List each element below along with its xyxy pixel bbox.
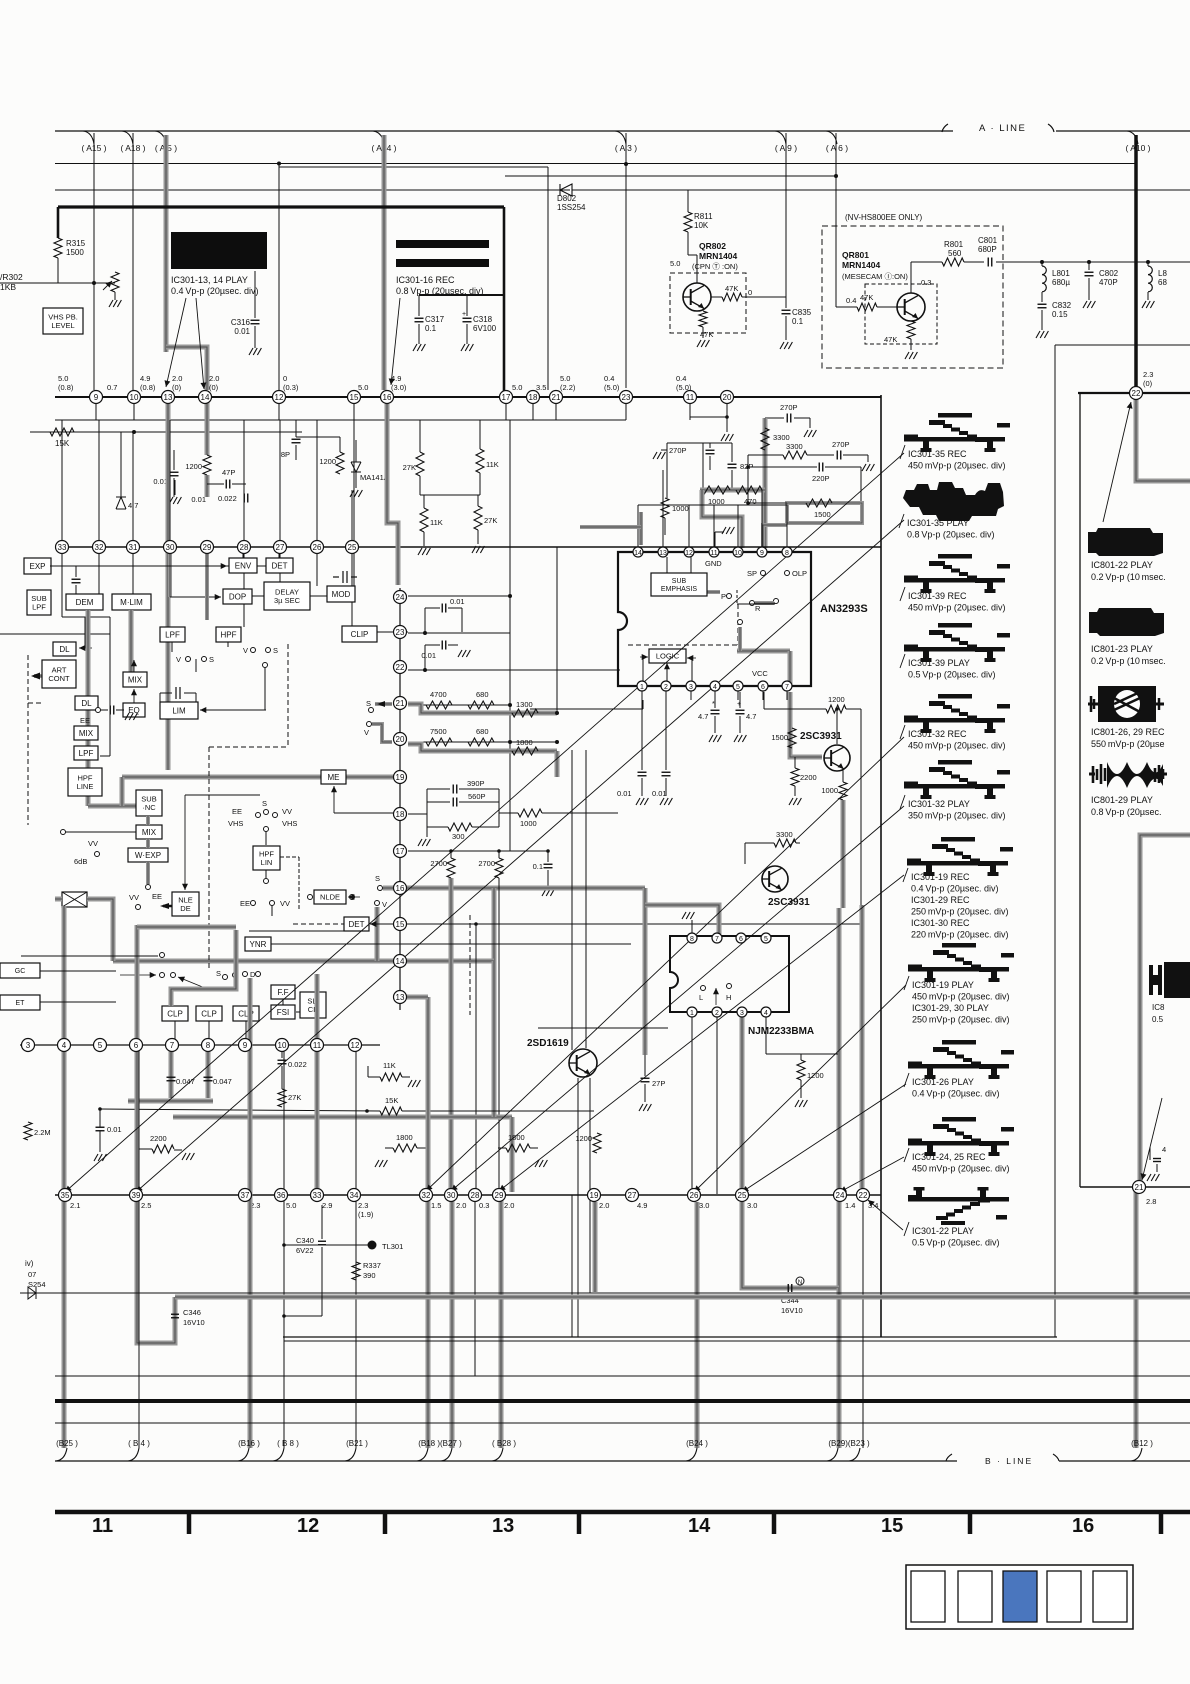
svg-text:CLIP: CLIP xyxy=(351,630,369,639)
svg-text:EE: EE xyxy=(232,807,242,816)
node 11 row1 xyxy=(684,391,697,404)
svg-text:1: 1 xyxy=(690,1010,694,1017)
svg-text:0.047: 0.047 xyxy=(213,1077,232,1086)
svg-text:14: 14 xyxy=(396,957,405,966)
gray trace A10 lower through node 21 xyxy=(1140,835,1190,1187)
A-LINE label xyxy=(942,124,948,132)
wire y345 right xyxy=(1055,344,1190,346)
svg-text:DEM: DEM xyxy=(76,598,94,607)
svg-text:39: 39 xyxy=(132,1191,141,1200)
box DL a xyxy=(53,642,76,656)
svg-text:TL301: TL301 xyxy=(382,1242,403,1251)
svg-text:390: 390 xyxy=(363,1271,376,1280)
box SUB LPF xyxy=(27,590,51,615)
connector hook (B29) xyxy=(827,1448,838,1461)
wire vertical x507 node17 net xyxy=(509,420,511,851)
wire LPF drop xyxy=(171,642,173,652)
capacitor C317 0.1 xyxy=(415,317,424,319)
waveform IC301-19 REC xyxy=(907,837,1013,876)
resistor 1200 b xyxy=(336,452,344,474)
gray trace x838 to B29 xyxy=(837,1288,842,1448)
svg-text:0.3: 0.3 xyxy=(479,1201,489,1210)
resistor 3300 a xyxy=(761,428,769,450)
gray trace 1800 band xyxy=(408,744,557,751)
svg-text:1.5: 1.5 xyxy=(431,1201,441,1210)
svg-text:MIX: MIX xyxy=(142,828,157,837)
leader tick xyxy=(904,1148,909,1162)
svg-text:EMPHASIS: EMPHASIS xyxy=(661,586,698,593)
svg-text:IC301-19 REC: IC301-19 REC xyxy=(911,872,970,882)
svg-text:450 mVp-p (20µsec. div): 450 mVp-p (20µsec. div) xyxy=(912,992,1010,1002)
svg-text:27K: 27K xyxy=(403,463,416,472)
svg-text:1.4: 1.4 xyxy=(845,1201,855,1210)
svg-text:1500: 1500 xyxy=(771,733,788,742)
gray trace A5 left branch below row1 xyxy=(166,404,171,770)
gray trace pin3 down xyxy=(740,1017,745,1192)
ground below C802 xyxy=(1083,301,1087,308)
leader line waveform xyxy=(426,737,904,1191)
svg-text:0.4 Vp-p (20µsec. div): 0.4 Vp-p (20µsec. div) xyxy=(171,286,259,296)
wire stub node 23 to rail xyxy=(625,397,627,420)
switch R xyxy=(750,601,755,606)
svg-text:EQ: EQ xyxy=(128,706,140,715)
svg-text:680: 680 xyxy=(476,727,489,736)
waveform IC301-35 REC xyxy=(904,413,1010,452)
svg-text:47K: 47K xyxy=(700,330,713,339)
wire 1500 left link xyxy=(748,502,787,504)
node IC301 pin 15 bus xyxy=(394,918,407,931)
node 27 row bottom xyxy=(626,1189,639,1202)
svg-text:( B28 ): ( B28 ) xyxy=(492,1439,516,1448)
svg-text:3.5: 3.5 xyxy=(536,383,546,392)
ground below MA141A xyxy=(355,472,357,488)
ground 4.7 a xyxy=(709,735,713,742)
box F.F xyxy=(271,985,295,999)
wire row3 bus xyxy=(20,1044,380,1046)
wire stub pin 14 xyxy=(637,532,639,547)
ruler tick xyxy=(772,1512,777,1534)
page navigation box active (blue) xyxy=(1003,1571,1037,1622)
svg-text:GND: GND xyxy=(705,559,722,568)
svg-text:(0.3): (0.3) xyxy=(283,383,299,392)
capacitor 82P loop xyxy=(703,442,732,444)
wire TL301 row xyxy=(284,1244,368,1246)
ground QR801 emitter xyxy=(910,339,912,350)
svg-text:8P: 8P xyxy=(281,450,290,459)
svg-text:2.3: 2.3 xyxy=(1143,370,1153,379)
gray trace 1300 band xyxy=(408,704,557,713)
resistor 27K grid a xyxy=(419,420,421,452)
switch V node 20 xyxy=(367,722,372,727)
svg-text:(5.0): (5.0) xyxy=(604,383,620,392)
svg-text:L8: L8 xyxy=(1158,269,1167,278)
gray trace y1117 long xyxy=(173,1115,512,1120)
svg-text:2700: 2700 xyxy=(478,859,495,868)
leader line IC301-22 xyxy=(868,1200,903,1230)
resistor 47K QR801 base xyxy=(857,303,877,311)
capacitor above MOD xyxy=(333,576,339,578)
svg-text:33: 33 xyxy=(313,1191,322,1200)
svg-text:1KB: 1KB xyxy=(0,282,16,292)
diode MA141A xyxy=(355,440,357,462)
svg-text:C832: C832 xyxy=(1052,301,1072,310)
capacitor 0.01 loop b xyxy=(424,645,426,670)
svg-text:C316: C316 xyxy=(231,318,251,327)
box EQ xyxy=(123,703,145,717)
wire horizontal rail y176 xyxy=(505,175,836,177)
gray trace node13 branch xyxy=(406,995,428,1000)
svg-text:OLP: OLP xyxy=(792,569,807,578)
node IC301 pin 18 bus xyxy=(394,808,407,821)
svg-text:NJM2233BMA: NJM2233BMA xyxy=(748,1026,814,1037)
wire connector A3 vertical xyxy=(625,133,627,388)
waveform photo IC301-13 14 PLAY xyxy=(171,232,267,269)
svg-text:29: 29 xyxy=(203,543,212,552)
wire node 32 to DEM xyxy=(98,554,100,594)
svg-text:0.01: 0.01 xyxy=(421,651,436,660)
wire stub node 12 to rail xyxy=(278,397,280,420)
wire node 27 to DELAY xyxy=(279,554,281,582)
svg-text:EE: EE xyxy=(240,899,250,908)
ground 270P a xyxy=(804,430,808,437)
wire vertical x133 mesh xyxy=(132,432,134,594)
leader tick xyxy=(900,445,905,459)
wire A-LINE top rail left segment xyxy=(55,130,953,132)
svg-text:07: 07 xyxy=(28,1270,36,1279)
wire horizontal rail y190 left of D802 xyxy=(55,189,558,191)
capacitor 220P xyxy=(748,466,817,468)
resistor 1200 d xyxy=(800,1054,802,1060)
ground below C835 xyxy=(780,342,784,349)
box LPF left stack xyxy=(74,746,98,760)
wire node 26 down xyxy=(316,554,318,586)
svg-text:DET: DET xyxy=(349,920,365,929)
junction dot xyxy=(132,430,136,434)
svg-text:LPF: LPF xyxy=(165,630,180,639)
wire vertical x99 mesh xyxy=(98,420,100,594)
wire vertical from rail to node 12 xyxy=(278,164,280,390)
box MIX left stack xyxy=(74,726,98,740)
svg-text:F.F: F.F xyxy=(277,988,288,997)
wire node33 net xyxy=(61,556,63,617)
wire stub node 14 to rail xyxy=(204,397,206,420)
wire main bus row 1 xyxy=(55,396,881,398)
leader line node 21 bottom right xyxy=(1142,1098,1162,1180)
svg-text:9: 9 xyxy=(760,550,764,557)
svg-text:32: 32 xyxy=(422,1191,431,1200)
gray trace node19 to rail xyxy=(593,1202,598,1292)
wire node15 row right xyxy=(408,923,860,925)
svg-text:0.5: 0.5 xyxy=(1152,1015,1164,1024)
gray elbow pin14 feed xyxy=(580,525,641,529)
wire horizontal rail y190 right of D802 xyxy=(572,189,1190,191)
svg-text:5.0: 5.0 xyxy=(670,259,680,268)
wire DOP DELAY link xyxy=(252,595,264,597)
pin 7 NJM2233BMA xyxy=(712,933,722,943)
svg-text:27P: 27P xyxy=(652,1079,665,1088)
svg-text:3µ SEC: 3µ SEC xyxy=(274,596,301,605)
svg-text:+: + xyxy=(462,311,466,318)
svg-text:IC301-30 REC: IC301-30 REC xyxy=(911,918,970,928)
svg-text:IC801-22 PLAY: IC801-22 PLAY xyxy=(1091,560,1153,570)
wire vertical x548 xyxy=(547,167,549,390)
svg-text:37: 37 xyxy=(241,1191,250,1200)
wire thick frame top of video head box xyxy=(58,205,504,208)
svg-text:2.1: 2.1 xyxy=(70,1201,80,1210)
svg-text:V: V xyxy=(364,728,369,737)
wire node22 row xyxy=(408,669,620,671)
svg-text:0.3: 0.3 xyxy=(921,278,931,287)
svg-text:0.7: 0.7 xyxy=(107,383,117,392)
resistor 3300 c xyxy=(745,842,774,844)
svg-text:270P: 270P xyxy=(780,403,798,412)
wire output rail y260 to right edge xyxy=(1003,261,1190,263)
capacitor 390P xyxy=(408,813,427,815)
svg-text:(1.9): (1.9) xyxy=(358,1210,374,1219)
ruler tick xyxy=(968,1512,973,1534)
svg-text:2.8: 2.8 xyxy=(1146,1197,1156,1206)
svg-text:1200: 1200 xyxy=(319,457,336,466)
resistor 1000 v xyxy=(661,498,669,518)
svg-text:12: 12 xyxy=(297,1515,319,1537)
wire stub node 17 to rail xyxy=(505,397,507,420)
svg-text:8: 8 xyxy=(206,1041,211,1050)
wire stub pin 13 xyxy=(662,532,664,547)
svg-text:0.8 Vp-p (20µsec. div): 0.8 Vp-p (20µsec. div) xyxy=(907,530,995,540)
svg-text:·NC: ·NC xyxy=(142,803,156,812)
node 4 row3 xyxy=(58,1039,71,1052)
resistor 680 a xyxy=(468,701,494,709)
svg-text:300: 300 xyxy=(452,832,465,841)
gray trace MLIM down xyxy=(129,610,134,672)
wire C317 C318 top bus xyxy=(419,294,505,296)
wire node 29 down gray xyxy=(205,554,209,620)
inductor L803 680 xyxy=(1147,262,1149,266)
svg-text:25: 25 xyxy=(348,543,357,552)
wire vertical x881 frame xyxy=(880,395,882,1337)
wire vertical x280 mesh xyxy=(279,420,281,540)
svg-text:CLP: CLP xyxy=(167,1009,183,1018)
svg-text:IC301-26 PLAY: IC301-26 PLAY xyxy=(912,1077,974,1087)
box NLE DE xyxy=(172,892,199,916)
connector hook ( B28 ) xyxy=(492,1448,503,1461)
wire pin4 to 1200 xyxy=(765,1017,767,1054)
svg-text:2SC3931: 2SC3931 xyxy=(800,731,842,742)
box CLP 1 xyxy=(162,1006,188,1021)
wire stub node 9 to rail xyxy=(95,397,97,420)
svg-text:DL: DL xyxy=(81,699,92,708)
leader arrow to node 16 xyxy=(391,298,400,385)
svg-text:34: 34 xyxy=(350,1191,359,1200)
svg-text:3.0: 3.0 xyxy=(699,1201,709,1210)
svg-text:15: 15 xyxy=(396,920,405,929)
svg-text:S: S xyxy=(209,655,214,664)
box ENV xyxy=(229,558,257,573)
connector hook (B23 ) xyxy=(849,1448,860,1461)
svg-text:680: 680 xyxy=(476,690,489,699)
svg-text:0.01: 0.01 xyxy=(617,789,632,798)
wire node11 node20 link xyxy=(689,404,691,417)
node 29 row bottom xyxy=(493,1189,506,1202)
resistor 1800 c xyxy=(393,1144,417,1152)
ground pin8 xyxy=(691,920,693,933)
svg-text:11K: 11K xyxy=(430,518,443,527)
node IC301 pin 24 bus xyxy=(394,591,407,604)
ruler tick xyxy=(383,1512,388,1534)
gray trace node30 to B27 xyxy=(450,1195,455,1448)
svg-text:680P: 680P xyxy=(978,245,997,254)
ground below C318 xyxy=(461,344,465,351)
svg-text:L801: L801 xyxy=(1052,269,1070,278)
svg-text:LPF: LPF xyxy=(32,602,46,611)
svg-text:450 mVp-p (20µsec. div): 450 mVp-p (20µsec. div) xyxy=(912,1164,1010,1174)
svg-text:8: 8 xyxy=(690,936,694,943)
svg-text:R801: R801 xyxy=(944,240,964,249)
svg-text:IC801-23 PLAY: IC801-23 PLAY xyxy=(1091,644,1153,654)
node 18 row1 xyxy=(527,391,540,404)
arrow wires left of cluster xyxy=(160,973,165,978)
capacitor C801 680P xyxy=(964,261,984,263)
node 17 row1 xyxy=(500,391,513,404)
node 3 row3 xyxy=(22,1039,35,1052)
box NLDE xyxy=(314,890,346,904)
svg-text:16: 16 xyxy=(1072,1515,1094,1537)
svg-text:P: P xyxy=(721,592,726,601)
connector hook ( A18 ) xyxy=(122,131,133,144)
gray trace subnc stack xyxy=(146,816,150,825)
svg-text:47K: 47K xyxy=(860,293,873,302)
ground below C832 xyxy=(1036,331,1040,338)
junction dots on rail xyxy=(1040,260,1044,264)
svg-text:R315: R315 xyxy=(66,239,86,248)
svg-text:VV: VV xyxy=(282,807,292,816)
ground 4.7 b xyxy=(734,735,738,742)
node 30 row bottom xyxy=(445,1189,458,1202)
capacitor 0.01 loop a xyxy=(424,608,426,633)
svg-text:S: S xyxy=(262,799,267,808)
pin 6 NJM2233BMA xyxy=(736,933,746,943)
capacitor 270P b loop xyxy=(667,442,710,444)
svg-text:5.0: 5.0 xyxy=(560,374,570,383)
wire node22b down to B23 xyxy=(862,1202,864,1448)
svg-text:11K: 11K xyxy=(383,1061,396,1070)
svg-text:V: V xyxy=(243,646,248,655)
wire node 28 to HPF xyxy=(243,554,245,627)
gray trace DO to B16 xyxy=(248,978,253,1448)
svg-text:EE: EE xyxy=(80,716,90,725)
svg-text:LOGIC: LOGIC xyxy=(656,652,680,661)
resistor R315 1500 xyxy=(54,238,62,258)
wire CLP stubs xyxy=(174,1021,176,1039)
gray trace ME horizontal xyxy=(122,775,394,780)
waveform fragment right edge xyxy=(1149,965,1162,995)
svg-text:27K: 27K xyxy=(288,1093,301,1102)
svg-text:MOD: MOD xyxy=(332,590,351,599)
svg-text:1: 1 xyxy=(640,684,644,691)
svg-text:DE: DE xyxy=(180,904,190,913)
svg-text:2.5: 2.5 xyxy=(141,1201,151,1210)
svg-text:IC301-39 PLAY: IC301-39 PLAY xyxy=(908,658,970,668)
resistor 3300 b xyxy=(783,451,807,459)
wire 3300b 270Pc row xyxy=(748,454,783,456)
node 10 row1 xyxy=(128,391,141,404)
box CLIP xyxy=(342,626,377,642)
capacitor 4.7 b xyxy=(739,692,741,708)
resistor 1000 c xyxy=(499,812,518,814)
svg-text:5.0: 5.0 xyxy=(58,374,68,383)
svg-text:32: 32 xyxy=(95,543,104,552)
svg-text:IC301-35 REC: IC301-35 REC xyxy=(908,449,967,459)
svg-text:3: 3 xyxy=(740,1010,744,1017)
svg-text:12: 12 xyxy=(685,550,693,557)
svg-text:450 mVp-p (20µsec. div): 450 mVp-p (20µsec. div) xyxy=(908,603,1006,613)
svg-text:(0): (0) xyxy=(209,383,219,392)
ground grid b2 xyxy=(477,530,479,544)
IC AN3293S outline xyxy=(618,552,811,686)
svg-text:(0.8): (0.8) xyxy=(140,383,156,392)
svg-text:7500: 7500 xyxy=(430,727,447,736)
dashed internal lines AN3293S xyxy=(736,590,738,604)
svg-text:27K: 27K xyxy=(484,516,497,525)
page navigation box xyxy=(911,1571,945,1622)
svg-text:IC801-26, 29 REC: IC801-26, 29 REC xyxy=(1091,727,1165,737)
wire connector A15 vertical xyxy=(93,133,95,390)
leader tick xyxy=(900,654,905,668)
svg-text:4.7: 4.7 xyxy=(746,712,756,721)
transistor 2SC3931 a xyxy=(824,745,850,771)
connector hook ( A 9 ) xyxy=(775,131,786,144)
wire node23 to CLIP xyxy=(394,631,408,633)
svg-text:30: 30 xyxy=(447,1191,456,1200)
wire bus row 1 right segment through node 22 xyxy=(1078,392,1190,394)
resistor 470 h xyxy=(736,486,762,494)
resistor 7500 xyxy=(426,738,452,746)
box YNR xyxy=(245,937,271,951)
wire stub pin 10 xyxy=(737,532,739,547)
node 23 row1 xyxy=(620,391,633,404)
wire B8 vertical xyxy=(283,1051,285,1448)
box FSI xyxy=(271,1005,295,1019)
node 28 row bottom xyxy=(469,1189,482,1202)
gray SUB EMPHASIS to P xyxy=(707,590,720,594)
svg-text:S: S xyxy=(366,699,371,708)
wire A6 to QR801 base xyxy=(835,300,837,307)
pin 10 AN3293S xyxy=(733,547,743,557)
leader tick xyxy=(900,587,905,601)
resistor 1200 e xyxy=(593,1133,601,1153)
svg-text:1SS254: 1SS254 xyxy=(557,203,586,212)
svg-text:ENV: ENV xyxy=(235,561,252,570)
resistor 27K grid b xyxy=(474,506,482,530)
svg-text:0.4 Vp-p (20µsec. div): 0.4 Vp-p (20µsec. div) xyxy=(912,1089,1000,1099)
svg-text:IC301-39 REC: IC301-39 REC xyxy=(908,591,967,601)
wire stub node 16 to rail xyxy=(386,397,388,420)
ground below L803 xyxy=(1147,292,1149,300)
svg-text:0: 0 xyxy=(748,288,752,297)
svg-text:(0): (0) xyxy=(172,383,182,392)
svg-text:S: S xyxy=(216,969,221,978)
arrow into NLE DE top xyxy=(185,794,260,796)
wire node 31 to M-LIM xyxy=(132,554,134,594)
svg-text:3300: 3300 xyxy=(786,442,803,451)
wire stub node 20 to rail xyxy=(726,397,728,420)
leader line waveform xyxy=(840,1157,904,1192)
waveform IC301-35 PLAY xyxy=(903,482,1004,521)
svg-text:(CPN Ⓣ :ON): (CPN Ⓣ :ON) xyxy=(692,262,738,271)
svg-text:2.3: 2.3 xyxy=(358,1201,368,1210)
wire A-LINE top rail right segment xyxy=(1056,130,1190,132)
node IC301 pin 22 bus xyxy=(394,661,407,674)
